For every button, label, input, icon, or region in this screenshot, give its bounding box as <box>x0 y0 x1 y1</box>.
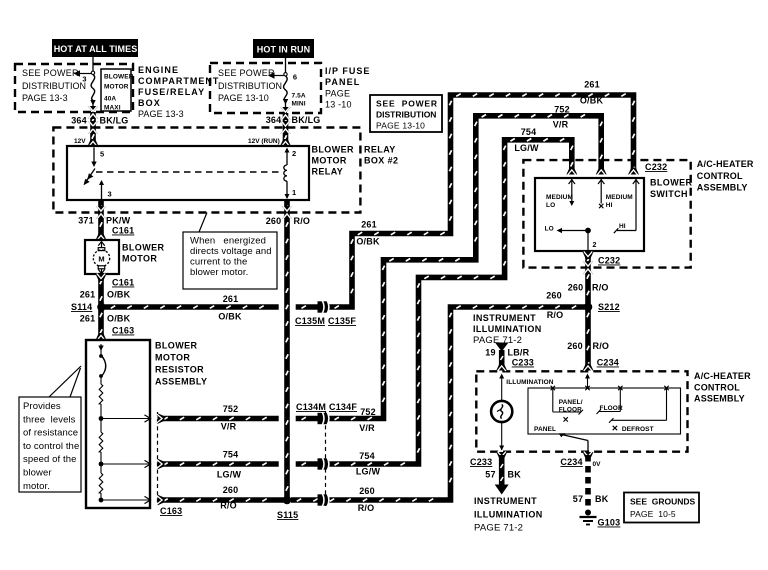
svg-text:PAGE 13-3: PAGE 13-3 <box>138 109 184 119</box>
svg-text:FLOOR: FLOOR <box>600 405 623 412</box>
wire 364 BK/LG left (fuse 3 to relay pin 5) <box>92 112 94 146</box>
wire 364 BK/LG right (fuse 6 to relay pin 2) <box>284 113 286 146</box>
svg-text:ILLUMINATION: ILLUMINATION <box>506 379 553 386</box>
svg-text:MOTOR: MOTOR <box>155 353 190 363</box>
see grounds page 10-5 box <box>624 493 699 523</box>
relay K1 coil, pins 2 and 1 <box>284 148 296 200</box>
label 371 PK/W <box>78 216 130 226</box>
label 364 BK/LG left <box>71 116 128 126</box>
callout note: relay function <box>183 213 277 290</box>
svg-text:364: 364 <box>71 116 87 126</box>
instrument illumination page 71-2 note (lower) <box>474 496 543 534</box>
svg-text:C135M: C135M <box>295 316 325 326</box>
svg-text:speed of the: speed of the <box>23 454 77 465</box>
splice S212 <box>584 302 620 312</box>
connector C135M C135F labels <box>295 316 356 326</box>
svg-text:260: 260 <box>266 216 282 226</box>
wire 261 O/BK (S114 to resistor C163) <box>100 307 102 340</box>
blower motor M1 <box>85 240 119 274</box>
svg-text:LG/W: LG/W <box>217 470 242 480</box>
svg-text:C134F: C134F <box>329 402 357 412</box>
relay K1 label <box>312 145 354 177</box>
splice S114 <box>71 302 106 312</box>
svg-text:R/O: R/O <box>220 501 237 511</box>
callout note: resistor function <box>19 366 81 492</box>
svg-text:A/C-HEATER: A/C-HEATER <box>697 159 754 169</box>
label 261 O/BK (below S114) <box>80 314 131 324</box>
label 752 V/R (right of C134) <box>359 407 376 433</box>
svg-text:O/BK: O/BK <box>356 237 380 247</box>
connector C134 dashed line <box>325 411 327 506</box>
svg-text:PAGE 13-10: PAGE 13-10 <box>218 93 269 103</box>
svg-text:752: 752 <box>554 105 570 115</box>
wire 57 BK (C233 to instrument illumination) <box>495 452 509 495</box>
svg-text:2: 2 <box>292 149 296 158</box>
svg-text:V/R: V/R <box>359 423 375 433</box>
svg-text:6: 6 <box>293 73 297 82</box>
svg-text:MOTOR: MOTOR <box>312 156 347 166</box>
label 260 R/O (above S212) <box>568 283 609 293</box>
svg-text:R/O: R/O <box>592 283 609 293</box>
svg-text:FUSE/RELAY: FUSE/RELAY <box>138 87 205 97</box>
see power distribution page 13-10 box <box>370 95 442 132</box>
svg-text:R/O: R/O <box>547 310 564 320</box>
svg-text:754: 754 <box>223 450 239 460</box>
bulb to C233 line <box>499 422 504 450</box>
see power distribution page 13-10 note <box>218 68 282 103</box>
svg-text:57: 57 <box>573 494 583 504</box>
svg-text:13 -10: 13 -10 <box>325 100 352 110</box>
wire 260 R/O (switch pin 2 to S212) <box>587 252 589 307</box>
svg-text:C163: C163 <box>112 326 134 336</box>
svg-text:MINI: MINI <box>292 101 306 108</box>
svg-text:261: 261 <box>223 294 239 304</box>
engine compartment fuse/relay box (dashed) <box>15 64 133 112</box>
label 260 R/O (left) <box>220 485 238 511</box>
svg-text:PAGE: PAGE <box>325 89 350 99</box>
svg-text:PANEL: PANEL <box>534 426 556 433</box>
svg-text:blower: blower <box>23 468 52 479</box>
svg-text:of resistance: of resistance <box>23 428 78 439</box>
svg-text:O/BK: O/BK <box>107 290 131 300</box>
connector C232 label (top) <box>645 162 667 172</box>
svg-text:364: 364 <box>266 115 282 125</box>
label 260 R/O (right of C134) <box>358 486 375 513</box>
svg-text:O/BK: O/BK <box>580 96 604 106</box>
fuse F2 7.5A MINI, pin 6 <box>268 58 306 113</box>
a/c-heater control assembly box (dashed, bottom) <box>476 371 687 451</box>
svg-text:BK/LG: BK/LG <box>292 115 321 125</box>
svg-text:SEE POWER: SEE POWER <box>22 68 79 78</box>
svg-text:blower motor.: blower motor. <box>190 267 248 278</box>
svg-text:5: 5 <box>100 150 104 159</box>
svg-text:R/O: R/O <box>593 341 610 351</box>
svg-text:C232: C232 <box>598 256 620 266</box>
wire 371 PK/W (relay pin 3 to blower motor C161) <box>100 200 102 240</box>
svg-text:260: 260 <box>567 341 583 351</box>
label 364 BK/LG right <box>266 115 321 125</box>
svg-text:3: 3 <box>82 75 86 84</box>
wire 260 R/O (relay pin 1 down to splice S115) <box>286 200 288 500</box>
svg-text:SEE GROUNDS: SEE GROUNDS <box>630 497 696 507</box>
splice S115 <box>277 496 298 520</box>
svg-text:HOT IN RUN: HOT IN RUN <box>257 45 311 55</box>
relay box #2 side label <box>364 145 398 166</box>
svg-text:ENGINE: ENGINE <box>138 65 179 75</box>
svg-text:S115: S115 <box>277 510 298 520</box>
svg-text:COMPARTMENT: COMPARTMENT <box>138 76 219 86</box>
svg-text:SEE POWER: SEE POWER <box>376 99 438 109</box>
connector C161 (bottom) <box>112 278 134 288</box>
svg-text:HOT AT ALL TIMES: HOT AT ALL TIMES <box>54 44 138 54</box>
svg-text:CONTROL: CONTROL <box>694 383 740 393</box>
mode switch wiper <box>559 433 588 452</box>
switch wiper LO position <box>545 226 597 251</box>
svg-text:INSTRUMENT: INSTRUMENT <box>473 313 536 323</box>
svg-text:Provides: Provides <box>23 401 61 412</box>
connector C232 label (bottom) <box>598 256 620 266</box>
svg-text:current to the: current to the <box>190 257 247 268</box>
resistor tap 3 (low) <box>99 496 151 503</box>
svg-text:7.5A: 7.5A <box>292 93 306 100</box>
svg-text:ASSEMBLY: ASSEMBLY <box>155 377 207 387</box>
switch contact MEDIUM LO <box>546 179 575 209</box>
mode switch contact marks <box>551 386 669 390</box>
svg-text:3: 3 <box>108 190 112 199</box>
svg-text:MEDIUM: MEDIUM <box>606 194 633 201</box>
svg-text:754: 754 <box>521 127 537 137</box>
label 261 O/BK (top run) <box>580 80 604 106</box>
blower switch SW1 box <box>535 178 644 251</box>
svg-text:RELAY: RELAY <box>312 167 344 177</box>
label 260 R/O (S212 run) <box>546 291 563 321</box>
svg-text:PAGE 71-2: PAGE 71-2 <box>474 523 523 534</box>
svg-text:LG/W: LG/W <box>514 143 539 153</box>
svg-text:C233: C233 <box>512 358 534 368</box>
svg-text:BOX: BOX <box>138 98 161 108</box>
svg-text:19: 19 <box>485 348 495 358</box>
power banner HOT AT ALL TIMES <box>52 39 138 57</box>
svg-text:DISTRIBUTION: DISTRIBUTION <box>376 110 436 120</box>
illumination bulb DS1 <box>491 401 512 422</box>
label 260 R/O (below relay) <box>266 216 310 226</box>
fuse F1 BLOWER MOTOR 40A MAXI box <box>101 69 134 112</box>
svg-text:BLOWER: BLOWER <box>155 341 197 351</box>
svg-text:R/O: R/O <box>294 216 311 226</box>
connector C233 label (bottom) <box>470 457 492 467</box>
mode position DEFROST <box>609 388 667 433</box>
svg-text:260: 260 <box>568 283 584 293</box>
svg-text:RELAY: RELAY <box>364 145 396 155</box>
svg-text:S212: S212 <box>598 302 620 312</box>
svg-text:V/R: V/R <box>221 422 237 432</box>
svg-text:G103: G103 <box>598 518 621 528</box>
svg-text:PAGE 10-5: PAGE 10-5 <box>630 509 676 519</box>
wire 260 R/O (S212 to C234) <box>587 307 589 371</box>
svg-text:MAXI: MAXI <box>104 105 121 112</box>
svg-text:BLOWER: BLOWER <box>650 178 692 188</box>
wire 752 V/R (resistor to blower switch MEDIUM HI) <box>158 115 603 420</box>
svg-text:O/BK: O/BK <box>218 312 242 322</box>
svg-text:DISTRIBUTION: DISTRIBUTION <box>218 81 282 91</box>
svg-text:12V: 12V <box>74 138 86 145</box>
svg-text:C135F: C135F <box>328 316 356 326</box>
svg-text:C161: C161 <box>112 278 134 288</box>
svg-text:MEDIUM: MEDIUM <box>546 194 573 201</box>
see power distribution page 13-3 note <box>22 68 86 103</box>
svg-text:40A: 40A <box>104 96 116 103</box>
svg-text:BK/LG: BK/LG <box>100 116 129 126</box>
svg-text:A/C-HEATER: A/C-HEATER <box>694 371 751 381</box>
svg-text:LB/R: LB/R <box>508 348 530 358</box>
mode switch feed from C234 <box>585 374 590 389</box>
svg-text:754: 754 <box>359 451 375 461</box>
label 261 O/BK (by relay box corner) <box>356 220 380 247</box>
engine compartment box side label <box>138 65 219 119</box>
svg-text:PANEL: PANEL <box>325 77 360 87</box>
wire 754 LG/W (resistor to blower switch MEDIUM LO) <box>158 139 573 466</box>
a/c-heater control switch assembly box (dashed) <box>523 160 690 268</box>
label 19 LB/R <box>485 348 529 358</box>
svg-text:BLOWER: BLOWER <box>312 145 354 155</box>
svg-text:261: 261 <box>584 80 600 90</box>
svg-text:motor.: motor. <box>23 481 50 492</box>
label 754 LG/W (left) <box>217 450 242 480</box>
connector C234 label (bottom) and 0V <box>560 457 601 468</box>
connector C163 dashed line (bottom) <box>157 412 159 505</box>
connector C233 label (top) <box>512 358 534 368</box>
i/p fuse panel side label <box>325 66 370 110</box>
svg-text:I/P FUSE: I/P FUSE <box>325 66 370 76</box>
svg-text:BOX #2: BOX #2 <box>364 156 398 166</box>
svg-text:260: 260 <box>223 485 239 495</box>
wire 260 R/O (resistor low row through S115 up to S212) <box>158 306 589 502</box>
mode position marks and PANEL label <box>534 417 617 433</box>
label 57 BK (left) <box>485 470 521 480</box>
resistor element internals <box>98 344 105 500</box>
svg-text:BK: BK <box>595 494 609 504</box>
svg-text:O/BK: O/BK <box>107 314 131 324</box>
svg-text:V/R: V/R <box>553 120 569 130</box>
svg-text:DISTRIBUTION: DISTRIBUTION <box>22 81 86 91</box>
blower motor resistor assembly box <box>86 340 150 508</box>
svg-text:R/O: R/O <box>358 503 375 513</box>
svg-text:BLOWER: BLOWER <box>122 243 164 253</box>
svg-text:261: 261 <box>80 290 96 300</box>
relay K1 pin 5 and switch blade <box>84 148 105 186</box>
svg-text:C161: C161 <box>112 226 134 236</box>
svg-text:HI: HI <box>606 202 613 209</box>
svg-text:260: 260 <box>546 291 562 301</box>
label 261 O/BK (horizontal run) <box>218 294 242 322</box>
svg-text:260: 260 <box>359 486 375 496</box>
label 752 V/R (top run) <box>553 105 570 130</box>
label 752 V/R (left) <box>221 404 239 432</box>
svg-text:PK/W: PK/W <box>106 216 131 226</box>
svg-text:BK: BK <box>508 470 522 480</box>
relay K1 actuation dashed line <box>96 171 283 173</box>
svg-text:261: 261 <box>361 220 377 230</box>
power banner HOT IN RUN <box>253 39 314 58</box>
svg-text:MOTOR: MOTOR <box>122 254 157 264</box>
svg-text:57: 57 <box>485 470 495 480</box>
svg-text:PAGE 13-10: PAGE 13-10 <box>376 121 425 131</box>
svg-text:LO: LO <box>545 226 554 233</box>
svg-text:SWITCH: SWITCH <box>650 189 688 199</box>
svg-text:ILLUMINATION: ILLUMINATION <box>474 510 543 520</box>
label 260 R/O (above C234) <box>567 341 609 351</box>
relay box #2 (dashed) <box>53 128 360 213</box>
a/c-heater control assembly side label (top) <box>697 159 754 193</box>
connector C163 label (bottom) <box>160 506 182 516</box>
i/p fuse panel box (dashed) <box>210 63 321 113</box>
svg-text:752: 752 <box>223 404 239 414</box>
svg-text:261: 261 <box>80 314 96 324</box>
svg-text:directs voltage and: directs voltage and <box>190 246 272 257</box>
svg-text:ASSEMBLY: ASSEMBLY <box>694 394 745 404</box>
instrument illumination page 71-2 note (upper) <box>473 313 542 346</box>
svg-text:to control the: to control the <box>23 441 79 452</box>
svg-text:C163: C163 <box>160 506 182 516</box>
illumination bulb branch <box>499 374 554 401</box>
svg-text:ASSEMBLY: ASSEMBLY <box>697 183 748 193</box>
svg-text:PANEL/: PANEL/ <box>559 399 583 406</box>
label 57 BK (right) <box>573 494 609 504</box>
svg-text:INSTRUMENT: INSTRUMENT <box>474 496 537 506</box>
svg-text:RESISTOR: RESISTOR <box>155 365 204 375</box>
label 261 O/BK (above S114) <box>80 290 131 300</box>
svg-text:HI: HI <box>619 223 626 230</box>
mode position FLOOR <box>597 388 623 414</box>
fuse F1 element, pin 3 <box>74 57 96 112</box>
ground G103 <box>580 510 621 528</box>
resistor tap 1 (medium) <box>99 415 151 422</box>
svg-text:C232: C232 <box>645 162 667 172</box>
mode switch (function selector) <box>528 388 681 434</box>
resistor tap 2 (medium-low) <box>99 460 151 467</box>
svg-text:CONTROL: CONTROL <box>697 171 743 181</box>
svg-text:LG/W: LG/W <box>356 467 381 477</box>
blower motor relay K1 <box>67 138 309 200</box>
svg-text:12V (RUN): 12V (RUN) <box>248 138 280 145</box>
svg-text:PAGE 13-3: PAGE 13-3 <box>22 93 68 103</box>
svg-text:C234: C234 <box>560 457 582 467</box>
svg-text:BLOWER: BLOWER <box>104 74 134 81</box>
wire 57 BK (C234 to ground G103, dashed) <box>583 452 594 511</box>
switch contact MEDIUM HI <box>598 179 633 209</box>
blower motor label <box>122 243 164 264</box>
svg-text:C233: C233 <box>470 457 492 467</box>
relay K1 pin 3 <box>99 180 112 200</box>
wire 261 O/BK (S114 right through C135 up to blower switch) <box>105 94 635 309</box>
svg-text:three levels: three levels <box>23 414 76 425</box>
svg-text:When energized: When energized <box>190 236 266 247</box>
svg-text:371: 371 <box>78 216 94 226</box>
wire 19 LB/R (illumination feed to C233) <box>495 343 509 372</box>
svg-text:S114: S114 <box>71 302 92 312</box>
label 754 LG/W (top run) <box>514 127 539 153</box>
wire 261 O/BK (motor C161 to splice S114) <box>100 274 102 307</box>
svg-text:DEFROST: DEFROST <box>622 426 654 433</box>
label 754 LG/W (right of C134) <box>356 451 381 477</box>
connector C234 label (top) <box>597 358 619 368</box>
mode position PANEL/FLOOR <box>553 388 583 415</box>
svg-text:2: 2 <box>593 242 597 249</box>
resistor assembly label <box>155 341 207 387</box>
blower switch label <box>650 178 692 200</box>
svg-text:C134M: C134M <box>296 402 326 412</box>
connector C134M C134F labels <box>296 402 357 412</box>
switch contact HI <box>614 179 639 233</box>
svg-text:SEE POWER: SEE POWER <box>218 68 275 78</box>
svg-text:C234: C234 <box>597 358 619 368</box>
svg-text:0V: 0V <box>593 461 602 468</box>
svg-text:1: 1 <box>292 188 296 197</box>
svg-text:LO: LO <box>546 202 555 209</box>
svg-text:MOTOR: MOTOR <box>104 84 129 91</box>
svg-text:FLOOR: FLOOR <box>559 407 582 414</box>
svg-text:ILLUMINATION: ILLUMINATION <box>473 324 542 334</box>
connector C161 (top) <box>112 226 134 236</box>
svg-text:M: M <box>98 255 104 264</box>
connector C163 (top) <box>112 326 134 336</box>
a/c-heater control assembly side label (bottom) <box>694 371 751 404</box>
svg-text:752: 752 <box>360 407 376 417</box>
